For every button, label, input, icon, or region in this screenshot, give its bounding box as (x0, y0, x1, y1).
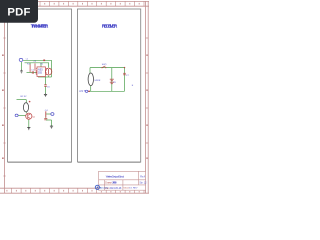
svg-text:Rv A: Rv A (140, 176, 145, 179)
svg-text:SW1: SW1 (102, 64, 108, 66)
svg-text:UTKARSH: UTKARSH (112, 182, 117, 185)
svg-text:ANT: ANT (79, 90, 86, 93)
svg-text:PDF: PDF (7, 6, 30, 18)
svg-text:Wireless Design of School: Wireless Design of School (106, 175, 125, 179)
svg-text:B1 9V: B1 9V (21, 96, 27, 98)
svg-text:BestCkt: BestCkt (100, 187, 109, 190)
svg-text:1/1 REV: 1/1 REV (129, 187, 138, 189)
svg-text:2023-05-28: 2023-05-28 (110, 188, 122, 190)
svg-text:RECEIVER: RECEIVER (102, 24, 118, 29)
svg-text:SPKR: SPKR (94, 80, 100, 82)
svg-text:TRANSMITTER: TRANSMITTER (31, 24, 49, 29)
svg-text:Siz: 12: Siz: 12 (139, 182, 147, 184)
svg-text:555: 555 (38, 72, 43, 75)
